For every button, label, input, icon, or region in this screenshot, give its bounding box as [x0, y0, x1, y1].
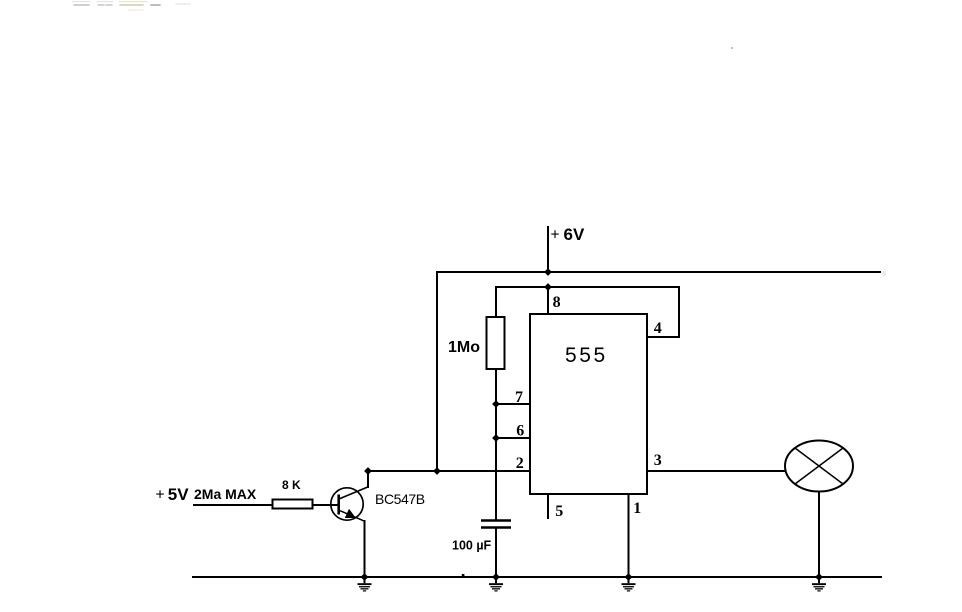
ground (lamp) — [812, 577, 826, 592]
wire pin 7 stub — [495, 403, 531, 405]
svg-text:2Ma MAX: 2Ma MAX — [194, 486, 257, 502]
wire left vertical drop to pin2 node — [436, 271, 438, 471]
node pin1/ground junction — [625, 573, 633, 581]
wire collector vertical — [367, 470, 369, 488]
wire pin 6 stub — [495, 437, 531, 439]
wire pin 3 output — [647, 470, 786, 472]
wire pin 2 horizontal — [368, 470, 531, 472]
wire pin 1 lead to ground — [628, 493, 630, 578]
svg-text:8: 8 — [553, 294, 561, 311]
node pin2/left-drop junction — [433, 467, 441, 475]
svg-text:5: 5 — [555, 503, 563, 520]
svg-text:6V: 6V — [564, 225, 585, 244]
wire R2 to transistor base — [312, 504, 339, 506]
op-amp U1 555 IC body — [530, 314, 647, 494]
node second-rail/pin8 junction — [544, 283, 552, 291]
wire second rail (R top / pin8 / pin4) — [496, 286, 679, 288]
node +6V/top-rail junction — [544, 268, 552, 276]
wire R1 top lead — [495, 286, 497, 318]
wire R1 bottom lead down to capacitor — [495, 368, 497, 520]
transistor Q1 BC547B — [331, 487, 368, 521]
wire pin 5 stub — [547, 493, 549, 519]
svg-text:1Mo: 1Mo — [448, 339, 480, 356]
svg-text:6: 6 — [516, 423, 524, 440]
ground (emitter) — [358, 577, 372, 592]
svg-text:5V: 5V — [168, 485, 189, 504]
wire lamp bottom lead — [818, 491, 820, 578]
wire bottom ground rail — [192, 576, 882, 578]
svg-text:7: 7 — [515, 389, 523, 406]
wire pin 4 lead horizontal — [647, 336, 680, 338]
wire input from +5V — [193, 504, 273, 506]
node emitter/ground junction — [361, 573, 369, 581]
svg-text:2: 2 — [516, 455, 524, 472]
ground (capacitor) — [489, 577, 503, 592]
node pin2/collector junction — [364, 467, 372, 475]
svg-text:100 µF: 100 µF — [452, 539, 492, 553]
wire top supply rail — [436, 271, 881, 273]
svg-text:+: + — [156, 487, 165, 504]
svg-text:8 K: 8 K — [282, 478, 301, 492]
ground (pin 1) — [622, 577, 636, 592]
wire emitter vertical — [364, 520, 366, 578]
node R1/pin6 junction — [492, 434, 500, 442]
wire pin 8 lead — [547, 286, 549, 314]
node capacitor/ground junction — [492, 573, 500, 581]
svg-text:3: 3 — [654, 452, 662, 469]
wire +6V supply stub — [547, 226, 549, 273]
svg-text:+: + — [551, 227, 560, 244]
node lamp/ground junction — [815, 573, 823, 581]
svg-text:1: 1 — [633, 500, 641, 517]
resistor R2 8K body — [273, 500, 313, 509]
svg-text:4: 4 — [654, 320, 662, 337]
capacitor C1 plates — [481, 521, 511, 528]
svg-text:555: 555 — [565, 344, 608, 367]
resistor R1 1Mo body — [487, 317, 505, 369]
node R1/pin7 junction — [492, 400, 500, 408]
wire pin 4 lead vertical — [678, 286, 680, 337]
svg-text:BC547B: BC547B — [375, 491, 425, 507]
lamp LP1 — [785, 441, 853, 492]
wire capacitor bottom lead — [495, 527, 497, 578]
